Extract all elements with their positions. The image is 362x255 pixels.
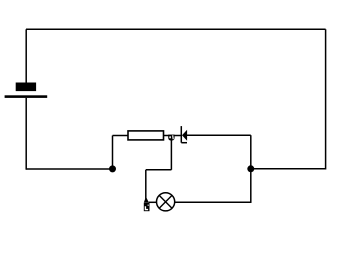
wire bottom left [26,168,112,170]
wire node to resistor horizontal [113,135,129,137]
wire resistor to diode [164,135,182,137]
diode D1 cathode foot [181,142,187,144]
lamp L1 cross stroke 1 [159,195,172,208]
diode D1 cathode bar [180,126,182,143]
wire left lower [25,98,27,170]
lamp L1 cross stroke 2 [159,195,172,208]
wire jog horizontal [146,169,172,171]
current arrow at lamp [144,198,149,203]
lamp L1 circle [157,193,175,211]
wire diode right [187,134,251,136]
wire lamp left [149,201,157,203]
wire left upper [25,29,27,83]
label L dot [148,205,149,206]
node junction dot right [247,165,254,172]
node junction dot left [109,165,116,172]
resistor R1 [128,131,164,140]
battery B1 positive plate [16,83,36,92]
wire right vertical [325,29,327,169]
battery B1 negative plate [5,95,48,98]
wire lamp right [175,201,252,203]
wire top [26,28,326,30]
diode D1 triangle [182,130,187,141]
label L highlight box [144,203,150,212]
label L letter [145,206,148,210]
wiper symbol at resistor output [168,135,174,141]
wire wiper down [170,140,172,170]
wire right mid vertical [250,135,252,202]
wire right horizontal [251,168,326,170]
wire down to lamp [145,170,147,202]
wire node to resistor vertical [112,136,114,169]
